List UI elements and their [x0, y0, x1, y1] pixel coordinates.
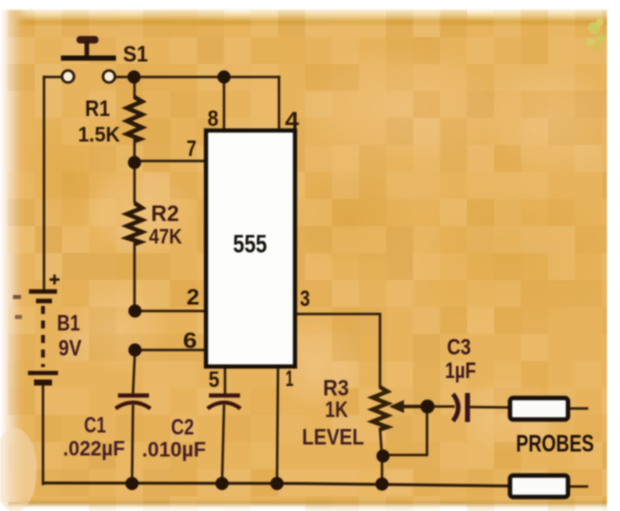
svg-text:LEVEL: LEVEL [302, 425, 364, 450]
svg-text:R1: R1 [85, 96, 110, 121]
svg-text:4: 4 [285, 108, 300, 135]
svg-text:B1: B1 [57, 311, 80, 336]
svg-text:PROBES: PROBES [516, 431, 594, 458]
svg-text:C1: C1 [84, 413, 106, 438]
svg-text:S1: S1 [123, 42, 148, 67]
svg-text:3: 3 [300, 286, 310, 311]
svg-text:1µF: 1µF [445, 358, 476, 383]
svg-text:1: 1 [286, 366, 294, 391]
svg-text:47K: 47K [149, 226, 182, 249]
svg-text:.010µF: .010µF [142, 439, 206, 462]
svg-text:2: 2 [187, 285, 200, 310]
svg-text:C3: C3 [447, 335, 471, 360]
svg-text:5: 5 [209, 367, 220, 392]
svg-text:R2: R2 [151, 201, 179, 226]
svg-text:1K: 1K [325, 397, 348, 422]
svg-text:6: 6 [183, 328, 197, 353]
svg-text:1.5K: 1.5K [78, 124, 120, 147]
svg-text:8: 8 [208, 106, 219, 131]
svg-text:.022µF: .022µF [63, 438, 125, 461]
svg-text:7: 7 [187, 136, 197, 161]
svg-text:9V: 9V [59, 336, 82, 361]
svg-text:C2: C2 [171, 415, 194, 440]
svg-text:555: 555 [233, 231, 267, 259]
